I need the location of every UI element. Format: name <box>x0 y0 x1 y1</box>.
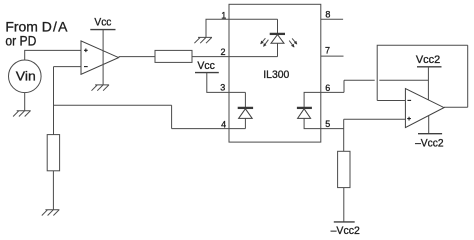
photodiode PD1 cathode bar <box>238 107 253 109</box>
wire Vcc bar through U1 to ground <box>102 30 104 85</box>
ground for pin 1 <box>194 37 212 43</box>
photodiode PD1 triangle <box>239 109 253 119</box>
plus sign U1 <box>84 48 88 52</box>
svg-text:6: 6 <box>325 83 330 93</box>
op-amp U1 <box>81 41 119 74</box>
wire U3 output <box>444 106 468 108</box>
svg-text:4: 4 <box>221 119 226 129</box>
ground below U1 <box>92 85 110 91</box>
svg-text:8: 8 <box>325 9 330 19</box>
wire ground to pin 1 and LED cathode <box>206 19 278 37</box>
ground below Vin <box>13 111 31 117</box>
resistor R2 (gain resistor to ground) <box>47 135 59 171</box>
LED emission arrow right 1 <box>292 38 297 44</box>
minus sign U3 <box>407 99 411 101</box>
Vcc supply bar (U1) <box>90 29 115 31</box>
voltage source Vin <box>9 60 42 93</box>
wire PD2 anode to pin 5 <box>304 118 321 128</box>
LED emission arrow right 2 <box>289 41 294 48</box>
wire PD2 cathode to pin 6 <box>304 92 321 107</box>
svg-text:3: 3 <box>220 83 225 93</box>
wire Vcc2 to op-amp U3 <box>427 67 429 100</box>
wire U3 feedback loop <box>377 45 468 107</box>
wire LED anode to pin 2 net <box>277 43 279 56</box>
wire pin 5 to U3 + input and R3 <box>321 119 406 151</box>
svg-text:7: 7 <box>325 46 330 56</box>
-Vcc2 supply bar (U3) <box>418 133 442 135</box>
wire PD1 anode to pin 4 <box>244 118 246 128</box>
svg-text:–Vcc2: –Vcc2 <box>415 138 444 150</box>
Vcc supply bar (pin 3) <box>195 72 219 74</box>
wire R1 to pin 2 and LED anode <box>192 56 278 58</box>
wire pin 4 <box>172 128 246 130</box>
svg-text:1: 1 <box>221 10 226 20</box>
wire U1 output <box>119 56 155 58</box>
svg-text:5: 5 <box>325 119 330 129</box>
wire Vin to op-amp + input <box>25 50 81 60</box>
wire R2 to ground <box>52 171 54 210</box>
svg-text:Vcc2: Vcc2 <box>416 54 440 66</box>
svg-text:2: 2 <box>220 47 225 57</box>
LED emission arrow left 1 <box>261 38 266 44</box>
wire Vin to ground <box>24 93 26 111</box>
wire U3 to -Vcc2 <box>428 116 430 134</box>
wire U3 inverting input <box>377 100 405 102</box>
LED D1 triangle <box>271 35 284 44</box>
svg-text:IL300: IL300 <box>263 69 289 81</box>
pin 7 stub <box>321 55 344 57</box>
optocoupler IC U2 IL300 body <box>229 4 321 142</box>
op-amp U3 <box>405 89 444 128</box>
svg-text:–Vcc2: –Vcc2 <box>331 225 360 237</box>
resistor R1 (series LED resistor) <box>155 50 192 62</box>
svg-text:Vcc: Vcc <box>197 60 215 72</box>
wire Vcc to pin 3 and PD1 cathode <box>207 73 246 107</box>
wire pin 6 to Vcc2 rail <box>321 80 429 92</box>
photodiode PD2 cathode bar <box>297 107 312 109</box>
wire U1 inverting input feedback <box>54 67 82 135</box>
svg-text:Vin: Vin <box>16 68 36 83</box>
LED D1 cathode bar <box>270 33 285 35</box>
Vcc2 supply bar <box>417 66 442 68</box>
LED emission arrow left 2 <box>264 40 269 47</box>
-Vcc2 supply bar (bottom) <box>334 221 355 223</box>
resistor R3 (output offset resistor) <box>338 151 350 187</box>
plus sign U3 <box>407 117 411 121</box>
minus sign U1 <box>84 66 88 68</box>
wire feedback horizontal to pin 4 net <box>54 105 172 128</box>
ground below R2 <box>42 210 60 216</box>
svg-text:or PD: or PD <box>5 33 36 49</box>
photodiode PD2 triangle <box>298 109 311 119</box>
svg-text:Vcc: Vcc <box>94 17 112 29</box>
wire R3 to -Vcc2 <box>343 188 345 222</box>
pin 8 stub <box>321 18 343 20</box>
